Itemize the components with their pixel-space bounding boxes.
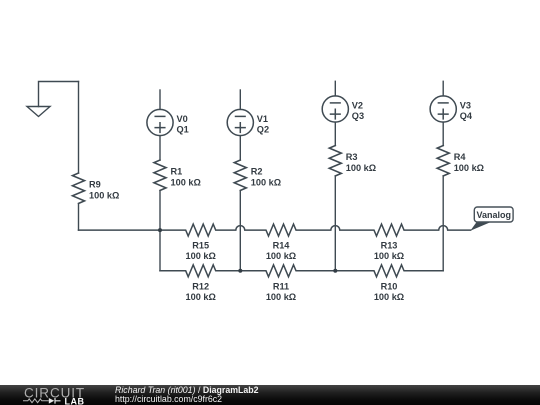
svg-text:R9: R9 xyxy=(89,179,101,189)
svg-text:R11: R11 xyxy=(273,281,289,291)
wire xyxy=(442,177,444,271)
wire xyxy=(78,82,80,174)
voltage source V0 xyxy=(147,109,173,135)
resistor R1 xyxy=(154,160,166,190)
flag Vanalog xyxy=(470,207,513,231)
wire top rail with resistors R15 R14 R13 and hops xyxy=(79,224,471,236)
svg-text:V3: V3 xyxy=(460,101,471,111)
voltage source V2 xyxy=(322,96,348,122)
svg-text:100 kΩ: 100 kΩ xyxy=(454,163,484,173)
svg-text:R10: R10 xyxy=(381,281,398,291)
svg-text:100 kΩ: 100 kΩ xyxy=(374,251,404,261)
svg-text:V1: V1 xyxy=(257,114,268,124)
wire xyxy=(78,205,80,231)
wire bottom rail with resistors R12 R11 R10 xyxy=(160,265,443,277)
svg-text:100 kΩ: 100 kΩ xyxy=(89,191,119,201)
svg-text:R4: R4 xyxy=(454,152,467,162)
resistor R4 xyxy=(437,146,449,176)
svg-text:100 kΩ: 100 kΩ xyxy=(266,251,296,261)
resistor R2 xyxy=(234,160,246,190)
wire xyxy=(334,81,336,96)
wire xyxy=(239,136,241,160)
resistor R3 xyxy=(329,146,341,176)
svg-text:LAB: LAB xyxy=(65,396,85,405)
wire xyxy=(159,192,161,271)
wire xyxy=(159,136,161,160)
svg-text:Q1: Q1 xyxy=(177,124,189,134)
node junction dot col3/bottom rail xyxy=(333,269,337,273)
svg-text:Q4: Q4 xyxy=(460,111,473,121)
svg-text:R1: R1 xyxy=(171,166,183,176)
svg-text:Q3: Q3 xyxy=(352,111,364,121)
wire xyxy=(442,81,444,96)
svg-text:100 kΩ: 100 kΩ xyxy=(346,163,376,173)
voltage source V1 xyxy=(227,109,253,135)
CircuitLab logo resistor glyph xyxy=(23,398,49,402)
wire xyxy=(334,177,336,271)
svg-text:R13: R13 xyxy=(381,241,398,251)
svg-text:Q2: Q2 xyxy=(257,124,269,134)
node junction dot col1/top rail xyxy=(158,228,162,232)
svg-text:R3: R3 xyxy=(346,152,358,162)
svg-text:R15: R15 xyxy=(192,241,209,251)
svg-text:100 kΩ: 100 kΩ xyxy=(374,292,404,302)
svg-text:100 kΩ: 100 kΩ xyxy=(251,178,281,188)
wire xyxy=(334,122,336,145)
voltage source V3 xyxy=(430,96,456,122)
resistor R9 xyxy=(73,173,85,203)
svg-text:100 kΩ: 100 kΩ xyxy=(266,292,296,302)
footer line 1 xyxy=(115,386,259,395)
svg-text:R14: R14 xyxy=(273,241,291,251)
svg-text:100 kΩ: 100 kΩ xyxy=(186,251,216,261)
wire xyxy=(442,122,444,145)
footer line 2 xyxy=(115,395,222,404)
ground xyxy=(27,82,79,117)
wire xyxy=(159,90,161,109)
svg-text:100 kΩ: 100 kΩ xyxy=(186,292,216,302)
svg-text:100 kΩ: 100 kΩ xyxy=(171,178,201,188)
node junction dot col2/bottom rail xyxy=(238,269,242,273)
CircuitLab logo diode glyph xyxy=(49,398,54,404)
svg-text:V0: V0 xyxy=(177,114,188,124)
svg-text:V2: V2 xyxy=(352,101,363,111)
svg-text:R2: R2 xyxy=(251,166,263,176)
svg-text:R12: R12 xyxy=(192,281,209,291)
wire xyxy=(239,90,241,109)
wire xyxy=(239,192,241,271)
svg-text:Vanalog: Vanalog xyxy=(476,210,511,220)
